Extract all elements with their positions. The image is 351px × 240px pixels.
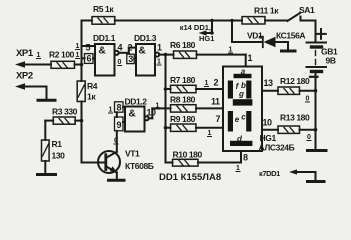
- resistor R2: [51, 61, 82, 68]
- switch SA1: [288, 13, 316, 21]
- connector XP1: [15, 61, 51, 67]
- svg-text:1: 1: [76, 52, 80, 59]
- segment letters: [235, 67, 247, 144]
- svg-text:8: 8: [243, 153, 248, 163]
- logic gate DD1.1: [82, 44, 129, 76]
- svg-text:1: 1: [248, 53, 253, 63]
- resistor R8: [152, 105, 223, 112]
- svg-text:КС156А: КС156А: [276, 31, 305, 41]
- zener diode VD1: [232, 21, 288, 51]
- svg-text:DD1.2: DD1.2: [125, 97, 148, 107]
- svg-text:1: 1: [37, 52, 41, 59]
- connector XP2: [15, 83, 47, 99]
- svg-text:0: 0: [118, 59, 122, 66]
- svg-text:6: 6: [86, 54, 91, 64]
- svg-text:1: 1: [157, 59, 161, 66]
- svg-text:КТ608Б: КТ608Б: [125, 161, 154, 171]
- resistor R1: [42, 140, 50, 174]
- svg-text:10: 10: [263, 118, 273, 128]
- svg-text:DD1 К155ЛА8: DD1 К155ЛА8: [159, 172, 221, 183]
- wire top rail: [115, 19, 242, 23]
- svg-text:R11 1к: R11 1к: [254, 6, 279, 16]
- svg-text:0: 0: [306, 96, 310, 103]
- ground (VD1): [282, 50, 296, 53]
- svg-text:8: 8: [116, 103, 121, 113]
- svg-text:R4: R4: [87, 81, 98, 91]
- svg-text:DD1.1: DD1.1: [93, 33, 116, 43]
- svg-text:VD1: VD1: [247, 31, 263, 41]
- svg-text:R5 1к: R5 1к: [93, 4, 114, 14]
- ground (R1): [38, 173, 56, 176]
- svg-text:9В: 9В: [326, 56, 336, 66]
- ground (XP2): [38, 99, 55, 102]
- svg-text:DD1.3: DD1.3: [134, 33, 157, 43]
- svg-text:13: 13: [264, 78, 274, 88]
- svg-text:&: &: [129, 109, 136, 120]
- ground (k7): [308, 180, 325, 183]
- svg-text:R6 180: R6 180: [170, 40, 196, 50]
- resistor R7: [166, 85, 224, 92]
- resistor R3: [45, 117, 81, 140]
- svg-text:3: 3: [128, 54, 133, 64]
- svg-text:1: 1: [205, 80, 209, 87]
- segment a: [234, 74, 252, 78]
- segment c: [246, 111, 251, 132]
- svg-text:R7 180: R7 180: [170, 75, 196, 85]
- gate DD1.3: [136, 44, 174, 76]
- svg-text:XP2: XP2: [16, 71, 33, 82]
- svg-text:0: 0: [114, 138, 118, 145]
- wire right rail: [314, 73, 318, 150]
- display HG1 box: [223, 67, 262, 152]
- svg-text:VT1: VT1: [125, 149, 140, 159]
- svg-text:a: a: [241, 67, 246, 76]
- segment f: [228, 81, 233, 99]
- svg-text:R13 180: R13 180: [280, 113, 310, 123]
- svg-text:0: 0: [307, 134, 311, 141]
- svg-text:к14 DD1,: к14 DD1,: [180, 23, 211, 32]
- svg-text:g: g: [238, 90, 244, 99]
- svg-text:R2 100: R2 100: [49, 50, 75, 60]
- svg-text:1: 1: [156, 103, 160, 110]
- gate DD1.2: [115, 102, 153, 132]
- resistor R9: [166, 124, 224, 131]
- svg-text:&: &: [99, 46, 106, 57]
- svg-text:1: 1: [109, 107, 113, 114]
- node k14 DD1,HG1 arrow: [199, 21, 214, 36]
- svg-text:7: 7: [216, 114, 221, 124]
- underlines for annotations: [36, 50, 312, 172]
- svg-text:XP1: XP1: [16, 48, 34, 59]
- svg-text:&: &: [139, 46, 146, 57]
- svg-text:11: 11: [211, 97, 220, 107]
- resistor R13: [262, 126, 316, 133]
- svg-text:e: e: [235, 115, 240, 124]
- segment b: [246, 81, 251, 99]
- resistor R12: [262, 87, 316, 94]
- resistor R11: [242, 17, 288, 24]
- wire jog to DD1.3 inputs: [127, 48, 136, 64]
- svg-text:R8 180: R8 180: [170, 95, 196, 105]
- ground (right rail): [308, 149, 327, 152]
- svg-text:2: 2: [128, 43, 133, 53]
- svg-text:1: 1: [236, 165, 240, 172]
- svg-text:4: 4: [118, 43, 123, 53]
- resistor R10: [166, 151, 242, 166]
- svg-text:9: 9: [116, 120, 121, 130]
- logic level annotations: [37, 43, 312, 172]
- svg-text:R10 180: R10 180: [173, 150, 203, 160]
- svg-text:R3 330: R3 330: [52, 107, 78, 117]
- svg-text:1: 1: [76, 43, 80, 50]
- segment g: [233, 99, 253, 105]
- svg-text:к7DD1: к7DD1: [259, 169, 280, 178]
- svg-text:R9 180: R9 180: [170, 114, 196, 124]
- svg-text:c: c: [241, 113, 246, 122]
- segment e: [228, 111, 233, 132]
- resistor R5: [82, 17, 115, 25]
- svg-text:HG1: HG1: [199, 34, 214, 43]
- svg-text:R12 180: R12 180: [280, 76, 310, 86]
- svg-text:1к: 1к: [87, 92, 96, 102]
- svg-text:2: 2: [214, 78, 219, 88]
- svg-text:АЛС324Б: АЛС324Б: [259, 143, 295, 153]
- battery GB1: [307, 21, 327, 77]
- transistor VT1: [82, 131, 121, 180]
- wire vertical V1: [164, 55, 168, 163]
- svg-text:130: 130: [52, 151, 66, 161]
- svg-text:1: 1: [229, 47, 233, 54]
- svg-text:R1: R1: [52, 139, 63, 149]
- node k7 DD1 arrow: [289, 169, 316, 181]
- svg-text:1: 1: [208, 130, 212, 137]
- segment d: [230, 141, 252, 146]
- svg-text:5: 5: [86, 43, 91, 53]
- resistor R4: [77, 81, 85, 102]
- svg-text:HG1: HG1: [260, 133, 277, 143]
- resistor R6: [174, 51, 246, 67]
- node A (divider vertical): [80, 21, 84, 163]
- svg-text:1: 1: [157, 43, 162, 53]
- svg-text:SA1: SA1: [299, 5, 315, 15]
- ground (VT1 emitter): [109, 179, 125, 182]
